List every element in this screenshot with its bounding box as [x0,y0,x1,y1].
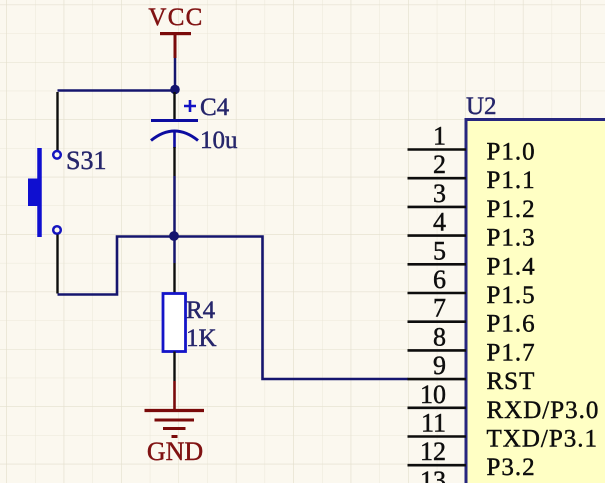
svg-text:P1.0: P1.0 [487,139,536,166]
svg-text:RST: RST [487,368,536,395]
svg-text:P1.6: P1.6 [487,311,536,338]
svg-text:TXD/P3.1: TXD/P3.1 [487,426,598,453]
U2 pin 4 (P1.3) [408,208,536,252]
U2 pin 13 [420,466,446,483]
node B junction [169,231,179,241]
svg-text:12: 12 [420,437,446,466]
svg-text:R4: R4 [186,297,216,324]
U2 pin 2 (P1.1) [408,150,536,194]
svg-text:2: 2 [433,150,446,179]
svg-text:11: 11 [421,409,446,438]
svg-text:GND: GND [147,437,203,466]
svg-text:C4: C4 [200,94,230,121]
U2 pin 1 (P1.0) [408,122,536,166]
svg-text:P1.3: P1.3 [487,225,536,252]
svg-text:7: 7 [433,294,446,323]
svg-text:S31: S31 [66,146,106,175]
svg-text:VCC: VCC [148,4,203,31]
svg-text:P3.2: P3.2 [487,454,536,481]
svg-text:8: 8 [433,322,446,351]
wire VCC to node A [174,58,177,89]
svg-text:13: 13 [420,466,446,483]
svg-text:P1.2: P1.2 [487,196,536,223]
svg-text:9: 9 [433,351,446,380]
svg-text:10: 10 [420,380,446,409]
U2 pin 12 (P3.2) [408,437,536,481]
U2 pin 9 (RST) [408,351,536,395]
svg-text:1K: 1K [186,325,217,352]
svg-text:P1.4: P1.4 [487,253,536,280]
svg-text:U2: U2 [466,93,497,120]
ground GND [145,381,205,466]
svg-text:P1.7: P1.7 [487,339,536,366]
wire node B to U2 RST pin 9 [175,237,409,380]
svg-text:P1.5: P1.5 [487,282,536,309]
power symbol VCC [148,4,203,58]
IC U2 [466,93,605,483]
wire switch S31 to node B [58,237,175,295]
wire node A to switch S31 [58,89,176,92]
capacitor C4 [151,92,238,176]
svg-text:RXD/P3.0: RXD/P3.0 [487,397,600,424]
U2 pin 6 (P1.5) [408,265,536,309]
U2 pin 10 (RXD/P3.0) [408,380,600,424]
node A junction [170,85,180,95]
U2 pin 3 (P1.2) [408,179,536,223]
U2 pin 7 (P1.6) [408,294,536,338]
wire node B to resistor R4 [173,237,176,264]
svg-text:10u: 10u [200,127,238,154]
svg-text:P1.1: P1.1 [487,167,536,194]
svg-text:6: 6 [433,265,446,294]
U2 pin 5 (P1.4) [408,236,536,280]
svg-text:1: 1 [433,122,446,151]
wire C4 to node B [173,176,176,237]
resistor R4 [163,263,217,381]
pushbutton S31 [28,92,106,294]
U2 pin 8 (P1.7) [408,322,536,366]
svg-text:3: 3 [433,179,446,208]
svg-text:4: 4 [433,208,446,237]
U2 pin 11 (TXD/P3.1) [408,409,598,453]
svg-text:5: 5 [433,236,446,265]
